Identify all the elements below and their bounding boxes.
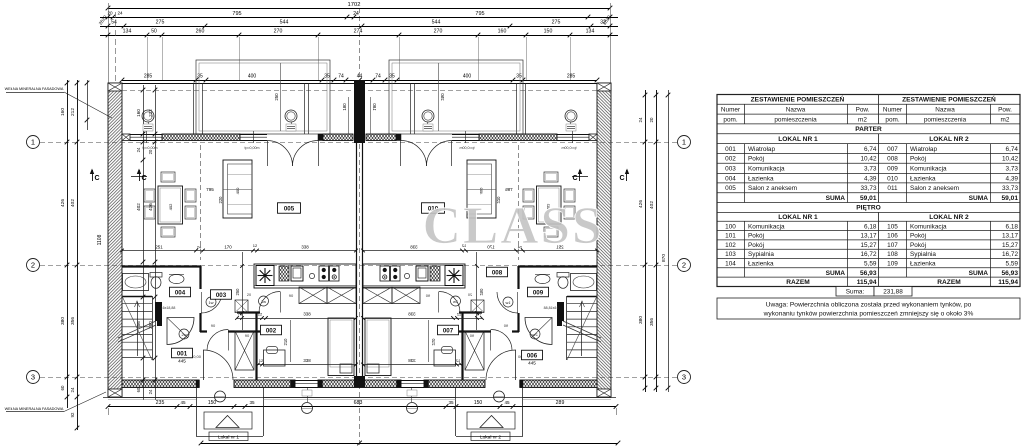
svg-text:402: 402 — [70, 199, 76, 207]
svg-text:289: 289 — [556, 400, 565, 406]
axis bubble 2 — [678, 259, 691, 272]
svg-text:C: C — [94, 175, 99, 182]
bottom exterior wall (y=380..388) with openings — [122, 380, 360, 388]
room label 004 — [170, 287, 191, 297]
wardrobe room001 (crossed) — [235, 300, 254, 370]
facade note bottom-left — [5, 392, 106, 412]
dimension row 795/24/795 — [98, 11, 618, 26]
svg-text:24: 24 — [70, 387, 75, 392]
svg-text:250: 250 — [274, 93, 279, 101]
svg-text:SUMA: SUMA — [969, 195, 989, 202]
svg-text:103: 103 — [725, 251, 736, 258]
svg-text:35: 35 — [516, 74, 522, 80]
svg-text:Komunikacja: Komunikacja — [748, 223, 785, 230]
svg-text:Suma:: Suma: — [846, 289, 865, 296]
svg-text:Łazienka: Łazienka — [748, 175, 774, 182]
svg-text:16x18,88: 16x18,88 — [161, 306, 176, 310]
svg-text:13,17: 13,17 — [1002, 233, 1018, 240]
svg-text:338: 338 — [303, 358, 311, 363]
svg-text:Pokój: Pokój — [910, 233, 926, 240]
svg-text:LOKAL NR 2: LOKAL NR 2 — [929, 214, 969, 221]
room schedule table — [717, 95, 1020, 287]
svg-text:002: 002 — [725, 156, 736, 163]
svg-text:32: 32 — [600, 20, 606, 26]
svg-text:275: 275 — [552, 20, 561, 26]
svg-text:12: 12 — [253, 243, 258, 248]
svg-text:CLASS: CLASS — [423, 197, 604, 255]
svg-text:3: 3 — [31, 373, 35, 382]
svg-text:Komunikacja: Komunikacja — [748, 165, 785, 172]
svg-text:160: 160 — [136, 109, 141, 117]
svg-text:402: 402 — [136, 203, 141, 211]
svg-text:011: 011 — [887, 185, 898, 192]
svg-text:115,94: 115,94 — [998, 279, 1018, 286]
svg-text:1108: 1108 — [97, 234, 103, 245]
canopy outline (400x250) — [196, 60, 330, 134]
dimension row 54/275/544 — [100, 20, 618, 29]
svg-text:870: 870 — [661, 254, 667, 262]
dining table with chairs — [144, 172, 196, 237]
room label 007 — [438, 325, 459, 335]
svg-text:Lokal nr 2: Lokal nr 2 — [480, 435, 501, 441]
svg-text:270: 270 — [274, 29, 283, 35]
svg-text:m2: m2 — [1001, 116, 1010, 123]
svg-text:pom.: pom. — [885, 116, 899, 123]
svg-text:426: 426 — [638, 200, 644, 208]
svg-text:Numer: Numer — [721, 107, 741, 114]
svg-text:Łazienka: Łazienka — [748, 260, 774, 267]
door corridor-002 — [259, 292, 281, 313]
svg-text:PARTER: PARTER — [855, 126, 882, 133]
svg-text:10,42: 10,42 — [1002, 156, 1018, 163]
svg-text:C: C — [141, 175, 146, 182]
svg-text:Pokój: Pokój — [748, 233, 764, 240]
svg-text:45: 45 — [504, 400, 510, 405]
svg-text:003: 003 — [216, 292, 227, 299]
svg-text:001: 001 — [725, 146, 736, 153]
svg-text:544: 544 — [432, 20, 441, 26]
svg-text:33,73: 33,73 — [1002, 185, 1018, 192]
leader lines from top dims to plan — [116, 12, 571, 83]
svg-text:1w: 1w — [261, 299, 266, 304]
svg-text:wykonaniu tynków powierzchnia: wykonaniu tynków powierzchnia pomieszcze… — [763, 311, 974, 318]
svg-text:Sypialnia: Sypialnia — [910, 251, 936, 258]
svg-text:338: 338 — [301, 245, 309, 250]
left outer dimension chain B — [70, 80, 79, 430]
svg-text:3,73: 3,73 — [864, 165, 877, 172]
svg-text:6,18: 6,18 — [864, 223, 877, 230]
svg-text:SUMA: SUMA — [826, 270, 846, 277]
svg-text:tp=0,00m: tp=0,00m — [142, 146, 157, 150]
svg-text:400: 400 — [235, 187, 240, 194]
window tag bubble (bottom window) — [302, 388, 313, 414]
interior dimension vertical (x=290 room002) — [283, 320, 291, 362]
svg-text:100: 100 — [725, 223, 736, 230]
svg-text:683: 683 — [354, 400, 363, 406]
svg-text:274: 274 — [354, 29, 363, 35]
door tag bubble (porch) — [215, 391, 226, 402]
svg-text:005: 005 — [284, 205, 295, 212]
room label 008 — [487, 267, 508, 277]
facade note top-left — [5, 87, 112, 118]
svg-text:007: 007 — [443, 327, 454, 334]
ventilation duct (black) — [155, 302, 162, 326]
svg-text:Nazwa: Nazwa — [935, 107, 955, 114]
bathtub — [123, 274, 149, 291]
axis line 1 (horizontal, y=142) — [40, 142, 677, 144]
central party wall — [354, 80, 365, 388]
svg-text:356: 356 — [649, 318, 655, 326]
room label 003 — [211, 290, 232, 300]
svg-text:20: 20 — [649, 117, 654, 122]
sofa — [223, 160, 252, 218]
svg-text:134: 134 — [586, 29, 595, 35]
svg-text:Pokój: Pokój — [910, 156, 926, 163]
svg-text:Pow.: Pow. — [998, 107, 1012, 114]
svg-text:109: 109 — [887, 260, 898, 267]
room label 005 — [278, 203, 301, 214]
facade wall front (y=134..140) with windows — [122, 134, 353, 166]
svg-text:2: 2 — [31, 261, 35, 270]
svg-text:Wiatrołap: Wiatrołap — [910, 146, 937, 153]
svg-text:56,93: 56,93 — [1001, 270, 1018, 277]
svg-text:170: 170 — [224, 245, 232, 250]
svg-text:59,01: 59,01 — [1001, 195, 1018, 202]
washbasin — [169, 274, 184, 283]
svg-text:3: 3 — [682, 373, 686, 382]
area texts under 001/006 — [178, 359, 536, 366]
svg-text:180: 180 — [342, 103, 347, 111]
svg-text:15,27: 15,27 — [1002, 242, 1018, 249]
svg-text:400: 400 — [248, 74, 257, 80]
svg-text:SUMA: SUMA — [826, 195, 846, 202]
svg-text:24: 24 — [148, 389, 153, 394]
svg-text:003: 003 — [725, 165, 736, 172]
svg-text:150: 150 — [474, 400, 483, 406]
svg-text:1: 1 — [31, 138, 35, 147]
svg-text:5,59: 5,59 — [864, 260, 877, 267]
svg-text:6,74: 6,74 — [864, 146, 877, 153]
svg-text:50: 50 — [151, 29, 157, 35]
left outer dimension chain A — [60, 80, 69, 408]
svg-text:35: 35 — [249, 400, 255, 405]
svg-text:160: 160 — [498, 29, 507, 35]
svg-text:Uwaga: Powierzchnia obliczona: Uwaga: Powierzchnia obliczona została pr… — [766, 302, 972, 309]
left inner dimension chain C — [136, 85, 145, 400]
svg-text:426: 426 — [60, 199, 66, 207]
svg-text:5,59: 5,59 — [1006, 260, 1019, 267]
svg-text:RAZEM: RAZEM — [937, 279, 961, 286]
room label 010 — [422, 203, 445, 214]
svg-text:90: 90 — [245, 333, 250, 338]
svg-text:001: 001 — [177, 350, 188, 357]
svg-text:235: 235 — [156, 400, 165, 406]
door corridor-003 — [201, 292, 222, 313]
living room guide dashed — [201, 145, 224, 260]
svg-text:210: 210 — [283, 338, 288, 346]
svg-text:LOKAL NR 1: LOKAL NR 1 — [778, 136, 818, 143]
svg-text:380: 380 — [60, 317, 66, 325]
upper strip vertical dims — [274, 63, 349, 134]
furniture size labels — [168, 187, 240, 210]
svg-text:56,93: 56,93 — [860, 270, 877, 277]
svg-text:m2: m2 — [858, 116, 867, 123]
toilet WC — [150, 273, 162, 289]
svg-text:24: 24 — [197, 245, 202, 250]
small level texts — [142, 146, 294, 359]
svg-text:426: 426 — [148, 203, 153, 211]
entry porch — [196, 388, 264, 437]
svg-text:160: 160 — [60, 108, 66, 116]
terrace strip above living room — [122, 83, 356, 134]
svg-text:402: 402 — [649, 201, 655, 209]
svg-text:101: 101 — [725, 233, 736, 240]
axis bubble 1 — [27, 136, 40, 149]
svg-text:107: 107 — [887, 242, 898, 249]
section letters C — [94, 175, 624, 182]
svg-text:795: 795 — [475, 11, 484, 17]
svg-text:20: 20 — [107, 11, 113, 16]
svg-text:Nazwa: Nazwa — [786, 107, 806, 114]
svg-text:Łazienka: Łazienka — [910, 260, 936, 267]
section marker C (right) — [131, 169, 147, 182]
svg-text:105: 105 — [887, 223, 898, 230]
svg-text:35: 35 — [197, 74, 203, 80]
svg-text:Komunikacja: Komunikacja — [910, 223, 947, 230]
svg-text:Numer: Numer — [883, 107, 903, 114]
svg-text:009: 009 — [533, 289, 544, 296]
svg-text:Pow.: Pow. — [856, 107, 870, 114]
right dimension chain total 870 — [661, 90, 670, 392]
svg-text:C: C — [572, 175, 577, 182]
svg-text:250: 250 — [235, 288, 240, 296]
door tag bubbles interior — [206, 297, 216, 307]
interior dimension line (living room, y=250.5) — [120, 243, 358, 252]
room label 001 — [172, 348, 193, 358]
axis line 3 (horizontal, y=377) — [40, 377, 677, 379]
svg-text:44: 44 — [357, 74, 363, 80]
interior wall: room001 top (y=331) — [200, 330, 260, 332]
dimension row 134/50/260/270/274... — [100, 29, 618, 38]
dimension row 285/35/400/35/74/44 (over facade) — [120, 74, 600, 83]
svg-text:2: 2 — [682, 261, 686, 270]
svg-text:1: 1 — [682, 138, 686, 147]
svg-text:010: 010 — [887, 175, 898, 182]
svg-text:pom.: pom. — [723, 116, 737, 123]
svg-text:92: 92 — [70, 412, 75, 417]
shower (quarter round) — [167, 318, 194, 345]
svg-text:Lokal nr 1: Lokal nr 1 — [218, 435, 239, 441]
svg-text:102: 102 — [725, 242, 736, 249]
axis bubble 1 — [678, 136, 691, 149]
svg-text:275: 275 — [156, 20, 165, 26]
right dimension chain B — [649, 90, 658, 392]
svg-text:Pokój: Pokój — [910, 242, 926, 249]
svg-text:009: 009 — [887, 165, 898, 172]
svg-text:3,73: 3,73 — [1006, 165, 1019, 172]
svg-text:400: 400 — [463, 74, 472, 80]
interior wall: room001/002 (x=256.5) — [255, 312, 257, 380]
svg-text:WEŁNA MINERALNA FASADOWA: WEŁNA MINERALNA FASADOWA — [5, 407, 64, 411]
svg-text:220: 220 — [218, 196, 223, 204]
svg-text:106: 106 — [887, 233, 898, 240]
svg-text:2w: 2w — [181, 332, 186, 337]
interior dimension vertical (corridor x=242) — [235, 252, 244, 330]
svg-text:260: 260 — [196, 29, 205, 35]
exterior wall: left side (insulated) — [108, 83, 122, 397]
svg-text:004: 004 — [725, 175, 736, 182]
svg-text:008: 008 — [887, 156, 898, 163]
svg-text:445: 445 — [528, 361, 536, 366]
entry door of unit (in bottom wall) — [203, 350, 233, 380]
svg-text:212: 212 — [70, 108, 76, 116]
svg-text:Pokój: Pokój — [748, 156, 764, 163]
room label 009 — [528, 287, 549, 297]
svg-text:270: 270 — [434, 29, 443, 35]
svg-text:002: 002 — [266, 327, 277, 334]
svg-text:90: 90 — [211, 323, 216, 328]
svg-text:54: 54 — [111, 20, 117, 26]
svg-text:6,18: 6,18 — [1006, 223, 1019, 230]
axis bubble 3 — [27, 371, 40, 384]
svg-text:104: 104 — [725, 260, 736, 267]
svg-text:RAZEM: RAZEM — [786, 279, 810, 286]
svg-text:150: 150 — [544, 29, 553, 35]
svg-text:Pokój: Pokój — [748, 242, 764, 249]
staircase — [118, 296, 156, 360]
kitchen counter with appliances — [254, 264, 356, 288]
svg-text:795: 795 — [232, 11, 241, 17]
svg-text:6,74: 6,74 — [1006, 146, 1019, 153]
axis bubble 2 — [27, 259, 40, 272]
interior wall: bath/corridor top (y=266.5) — [122, 265, 201, 267]
svg-text:Salon z aneksem: Salon z aneksem — [910, 185, 959, 192]
svg-text:Łazienka: Łazienka — [910, 175, 936, 182]
svg-text:SUMA: SUMA — [969, 270, 989, 277]
svg-text:285: 285 — [144, 74, 153, 80]
room label 002 — [261, 325, 282, 335]
svg-text:10,42: 10,42 — [861, 156, 877, 163]
svg-text:1702: 1702 — [348, 2, 361, 8]
svg-text:Komunikacja: Komunikacja — [910, 165, 947, 172]
interior dimension line (y=364.5) — [256, 358, 358, 366]
svg-text:004: 004 — [175, 289, 186, 296]
svg-text:C: C — [619, 175, 624, 182]
svg-text:LOKAL NR 2: LOKAL NR 2 — [929, 136, 969, 143]
svg-text:795: 795 — [206, 187, 214, 192]
interior wall: corridor/002 stub (y=312.5) — [237, 311, 260, 313]
svg-text:108: 108 — [887, 251, 898, 258]
svg-text:005: 005 — [725, 185, 736, 192]
svg-text:12: 12 — [259, 358, 264, 363]
right dimension chain A — [638, 90, 647, 392]
svg-text:59,01: 59,01 — [860, 195, 877, 202]
room label 006 — [522, 350, 543, 360]
svg-text:60: 60 — [60, 385, 65, 390]
svg-text:13,17: 13,17 — [861, 233, 877, 240]
suma total row — [836, 287, 912, 297]
bottom dimension line (second) — [109, 408, 621, 445]
svg-text:115,94: 115,94 — [857, 279, 877, 286]
svg-text:24: 24 — [353, 11, 359, 17]
svg-text:356: 356 — [70, 317, 76, 325]
svg-text:16,72: 16,72 — [861, 251, 877, 258]
section marker C (left) — [90, 169, 94, 182]
interior dimension line (y=318) — [235, 312, 358, 320]
svg-text:402: 402 — [168, 203, 173, 210]
svg-text:231,88: 231,88 — [883, 289, 903, 296]
svg-text:445: 445 — [178, 359, 186, 364]
interior wall: corridor vertical (x=200.5) — [199, 266, 201, 332]
svg-text:4,39: 4,39 — [864, 175, 877, 182]
svg-text:tp=0,00m: tp=0,00m — [244, 146, 259, 150]
dimension row 1702 (top) — [106, 2, 613, 83]
svg-text:544: 544 — [280, 20, 289, 26]
paving edge below building — [108, 398, 616, 400]
svg-text:ZESTAWIENIE POMIESZCZEŃ: ZESTAWIENIE POMIESZCZEŃ — [751, 95, 845, 104]
svg-text:12: 12 — [258, 312, 263, 317]
svg-text:ZESTAWIENIE POMIESZCZEŃ: ZESTAWIENIE POMIESZCZEŃ — [902, 95, 996, 104]
svg-text:pomieszczenia: pomieszczenia — [774, 116, 817, 123]
svg-text:006: 006 — [527, 352, 538, 359]
porch label lokal nr 1 — [209, 432, 248, 441]
svg-text:15,27: 15,27 — [861, 242, 877, 249]
svg-text:WEŁNA MINERALNA FASADOWA: WEŁNA MINERALNA FASADOWA — [5, 87, 64, 91]
svg-text:008: 008 — [492, 269, 503, 276]
svg-text:285: 285 — [567, 74, 576, 80]
svg-text:Sypialnia: Sypialnia — [748, 251, 774, 258]
svg-text:45: 45 — [180, 400, 186, 405]
desk with chair room002 — [264, 347, 286, 367]
svg-text:Salon z aneksem: Salon z aneksem — [748, 185, 797, 192]
svg-text:134: 134 — [123, 29, 132, 35]
door corridor-001 — [207, 330, 229, 351]
porch label lokal nr 2 — [471, 432, 510, 441]
svg-text:pomieszczenia: pomieszczenia — [924, 116, 967, 123]
svg-text:24: 24 — [638, 117, 643, 122]
svg-text:74: 74 — [338, 74, 344, 80]
axis line 2 (horizontal, y=265) — [40, 265, 677, 267]
svg-text:007: 007 — [887, 146, 898, 153]
axis bubble 3 — [678, 371, 691, 384]
svg-text:Wiatrołap: Wiatrołap — [748, 146, 775, 153]
svg-text:PIĘTRO: PIĘTRO — [856, 205, 881, 212]
svg-text:24: 24 — [117, 11, 123, 16]
svg-text:251: 251 — [155, 245, 163, 250]
svg-text:150: 150 — [208, 400, 217, 406]
svg-text:20: 20 — [247, 293, 251, 297]
bed room002 — [328, 318, 354, 376]
svg-text:16,72: 16,72 — [1002, 251, 1018, 258]
svg-text:380: 380 — [638, 316, 644, 324]
svg-text:1w: 1w — [208, 300, 213, 305]
svg-text:24: 24 — [136, 147, 141, 152]
svg-text:90: 90 — [289, 293, 294, 298]
note box — [717, 298, 1020, 319]
bottom dimension row 235/45/150/35/683... — [106, 400, 619, 409]
svg-text:338: 338 — [303, 312, 311, 317]
svg-text:4,39: 4,39 — [1006, 175, 1019, 182]
window sill ticks front wall — [147, 131, 254, 143]
left inner dimension chain D — [148, 85, 157, 400]
svg-text:74: 74 — [375, 74, 381, 80]
label 1108 — [85, 80, 103, 245]
svg-text:35: 35 — [448, 400, 454, 405]
svg-text:LOKAL NR 1: LOKAL NR 1 — [778, 214, 818, 221]
window tag bubbles on facade — [142, 110, 154, 131]
svg-text:33,73: 33,73 — [861, 185, 877, 192]
central axis (vertical dashed) — [359, 8, 361, 446]
